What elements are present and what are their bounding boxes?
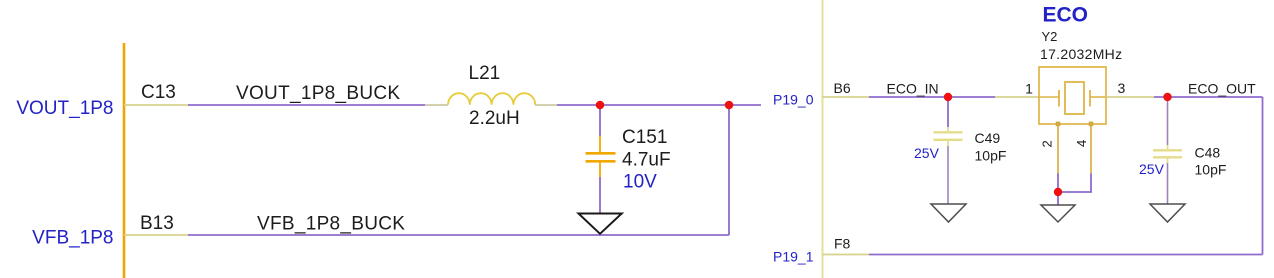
- ground under C48: [1150, 204, 1185, 222]
- inductor L21 left lead: [425, 104, 448, 106]
- ground (left): [579, 214, 622, 234]
- wire ECO_IN: [869, 96, 995, 98]
- svg-text:L21: L21: [469, 63, 501, 84]
- svg-text:C48: C48: [1195, 145, 1221, 161]
- crystal Y2 internal: left electrode: [1058, 90, 1060, 107]
- crystal Y2 body box: [1039, 67, 1106, 124]
- svg-text:25V: 25V: [914, 145, 940, 161]
- svg-text:10pF: 10pF: [975, 148, 1007, 164]
- ground under crystal: [1041, 205, 1075, 222]
- wire pin4 down and left: [1058, 174, 1091, 193]
- svg-text:10pF: 10pF: [1195, 162, 1227, 178]
- crystal Y2 pin 3 stub: [1106, 96, 1154, 98]
- wire VFB_1P8_BUCK (bottom): [188, 234, 729, 236]
- capacitor C151 top lead: [599, 105, 601, 136]
- svg-text:VOUT_1P8: VOUT_1P8: [16, 98, 113, 119]
- junction node under crystal: [1054, 188, 1062, 196]
- svg-text:3: 3: [1118, 80, 1126, 96]
- crystal Y2 internal: left lead: [1039, 96, 1059, 98]
- wire stub right of node: [729, 104, 761, 106]
- junction node C49: [944, 93, 952, 101]
- crystal Y2 pin 4 pad: [1089, 122, 1094, 127]
- svg-text:P19_0: P19_0: [773, 91, 814, 107]
- crystal Y2 pin 1 stub: [995, 96, 1039, 98]
- wire ECO_OUT: [1154, 96, 1263, 98]
- crystal Y2 pin 2 stub: [1057, 124, 1059, 174]
- wire pin2 to junction: [1057, 174, 1059, 193]
- svg-text:10V: 10V: [623, 172, 657, 193]
- capacitor C48 top lead: [1167, 97, 1169, 145]
- pin F8 stub: [823, 254, 870, 256]
- crystal Y2 internal: right electrode: [1089, 90, 1091, 107]
- capacitor C151 plates: [586, 152, 616, 155]
- capacitor C48 plates: [1153, 149, 1182, 151]
- svg-text:C151: C151: [622, 127, 667, 148]
- svg-text:4.7uF: 4.7uF: [622, 150, 671, 171]
- svg-text:VOUT_1P8_BUCK: VOUT_1P8_BUCK: [236, 83, 400, 104]
- ground under C49: [931, 204, 966, 222]
- right block edge (khaki vertical line): [822, 0, 824, 278]
- junction node at inductor output: [596, 101, 605, 110]
- capacitor C49 top lead: [947, 97, 949, 127]
- svg-text:Y2: Y2: [1042, 29, 1058, 44]
- svg-text:ECO: ECO: [1043, 4, 1089, 27]
- crystal Y2 internal: right lead: [1090, 96, 1106, 98]
- wire bottom P19_1: [869, 254, 1263, 256]
- crystal Y2 pin 4 stub: [1090, 124, 1092, 174]
- capacitor C48 bottom lead: [1167, 159, 1169, 164]
- wire to node: [557, 104, 729, 106]
- pin C13 stub: [124, 104, 188, 106]
- svg-text:1: 1: [1025, 81, 1033, 97]
- inductor L21 right lead: [535, 104, 557, 106]
- svg-text:F8: F8: [834, 236, 851, 252]
- svg-text:P19_1: P19_1: [773, 249, 814, 265]
- svg-text:VFB_1P8: VFB_1P8: [32, 228, 113, 249]
- svg-text:ECO_IN: ECO_IN: [887, 81, 939, 97]
- svg-text:ECO_OUT: ECO_OUT: [1188, 81, 1256, 97]
- crystal Y2 pin 2 pad: [1056, 122, 1061, 127]
- svg-text:4: 4: [1074, 140, 1089, 147]
- svg-text:B13: B13: [140, 213, 174, 234]
- wire vertical right: [728, 105, 730, 235]
- junction node at right of left section: [725, 101, 734, 110]
- svg-text:C13: C13: [141, 82, 176, 103]
- pin B13 stub: [124, 234, 188, 236]
- pin B6 stub: [823, 96, 870, 98]
- capacitor C151 bottom lead: [599, 162, 601, 177]
- crystal Y2 internal: slab rect: [1065, 82, 1084, 114]
- svg-text:17.2032MHz: 17.2032MHz: [1040, 46, 1122, 62]
- wire VOUT_1P8_BUCK: [188, 104, 425, 106]
- svg-text:25V: 25V: [1139, 161, 1165, 177]
- capacitor C49 bottom lead: [947, 141, 949, 146]
- capacitor C49 plates: [934, 131, 963, 133]
- svg-text:B6: B6: [834, 80, 851, 96]
- junction node C48: [1163, 93, 1171, 101]
- wire junction to ground: [1057, 192, 1059, 205]
- svg-text:2: 2: [1040, 140, 1055, 147]
- inductor L21 coil: [448, 93, 535, 105]
- left block edge (amber vertical line): [123, 43, 126, 278]
- svg-text:C49: C49: [975, 130, 1001, 146]
- svg-text:VFB_1P8_BUCK: VFB_1P8_BUCK: [257, 214, 405, 235]
- wire right vertical: [1262, 97, 1264, 255]
- svg-text:2.2uH: 2.2uH: [469, 108, 520, 129]
